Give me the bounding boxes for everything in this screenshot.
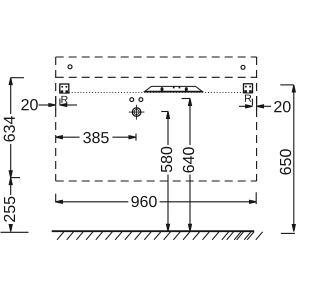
dim 580 vertical line (167, 112, 169, 231)
dotted hanger line (69, 91, 244, 93)
dim 385 end tick (135, 134, 137, 141)
dim 580 top tick (161, 111, 168, 113)
siphon small circle right (139, 98, 143, 102)
dim text 20 right (274, 101, 290, 112)
floor level stub left (1, 231, 29, 233)
ground line (52, 230, 255, 232)
dim 634 arrows (9, 78, 12, 85)
dim 650 top tick (280, 84, 294, 86)
right wall bracket (244, 84, 253, 93)
dim 385 line (57, 136, 135, 138)
dim 634 vertical line (10, 78, 12, 178)
dim 20 right short tick (251, 99, 253, 106)
left bracket label R (61, 96, 67, 103)
ground hatching (57, 232, 263, 240)
dim 640 vertical line (189, 99, 191, 231)
dim text 20 left (21, 99, 37, 110)
dim text 650 (rotated) (280, 149, 291, 174)
dim text 385 (83, 132, 108, 143)
left top small circle (68, 65, 72, 69)
drill point crosshair (129, 105, 145, 120)
dim 20 left long tick (55, 96, 57, 110)
dim 255 vertical line (10, 178, 12, 232)
left wall bracket (60, 84, 69, 93)
right top small circle (241, 65, 245, 69)
dim 960 right riser (255, 192, 257, 204)
dim 960 left riser (55, 194, 57, 203)
mounting rail (145, 86, 203, 91)
dim 20 left short tick (59, 99, 61, 106)
countertop underside line (dashed) (56, 76, 257, 78)
dim 20 left inner arrow tail (61, 104, 77, 106)
dim text 255 (rotated) (4, 197, 15, 222)
dim 960 line (57, 201, 256, 203)
floor level tick right (281, 232, 295, 234)
dim 650 vertical line (293, 85, 295, 231)
dim text 640 (rotated) (183, 147, 194, 172)
cabinet outline top edge (dashed) (56, 56, 257, 58)
dim 20 right long tick (256, 96, 258, 110)
dim 20 right inner arrow tail (258, 105, 271, 107)
dim text 960 (131, 196, 156, 207)
cabinet outline left edge (dashed) (55, 57, 57, 181)
dim text 580 (rotated) (161, 147, 172, 172)
right bracket label R (245, 95, 251, 102)
dim text 634 (rotated) (4, 116, 15, 141)
dim 634 top tick (11, 77, 24, 79)
cabinet outline right edge (dashed) (256, 57, 258, 181)
dim 640 top tick (182, 98, 191, 100)
dim 634 mid tick (11, 177, 20, 179)
dim 255 arrows (9, 178, 12, 185)
dim 20 right arrow line (239, 105, 251, 107)
dim 20 left arrow line (39, 104, 55, 106)
siphon small circle left (130, 98, 134, 102)
cabinet outline bottom edge (dashed) (56, 180, 257, 182)
